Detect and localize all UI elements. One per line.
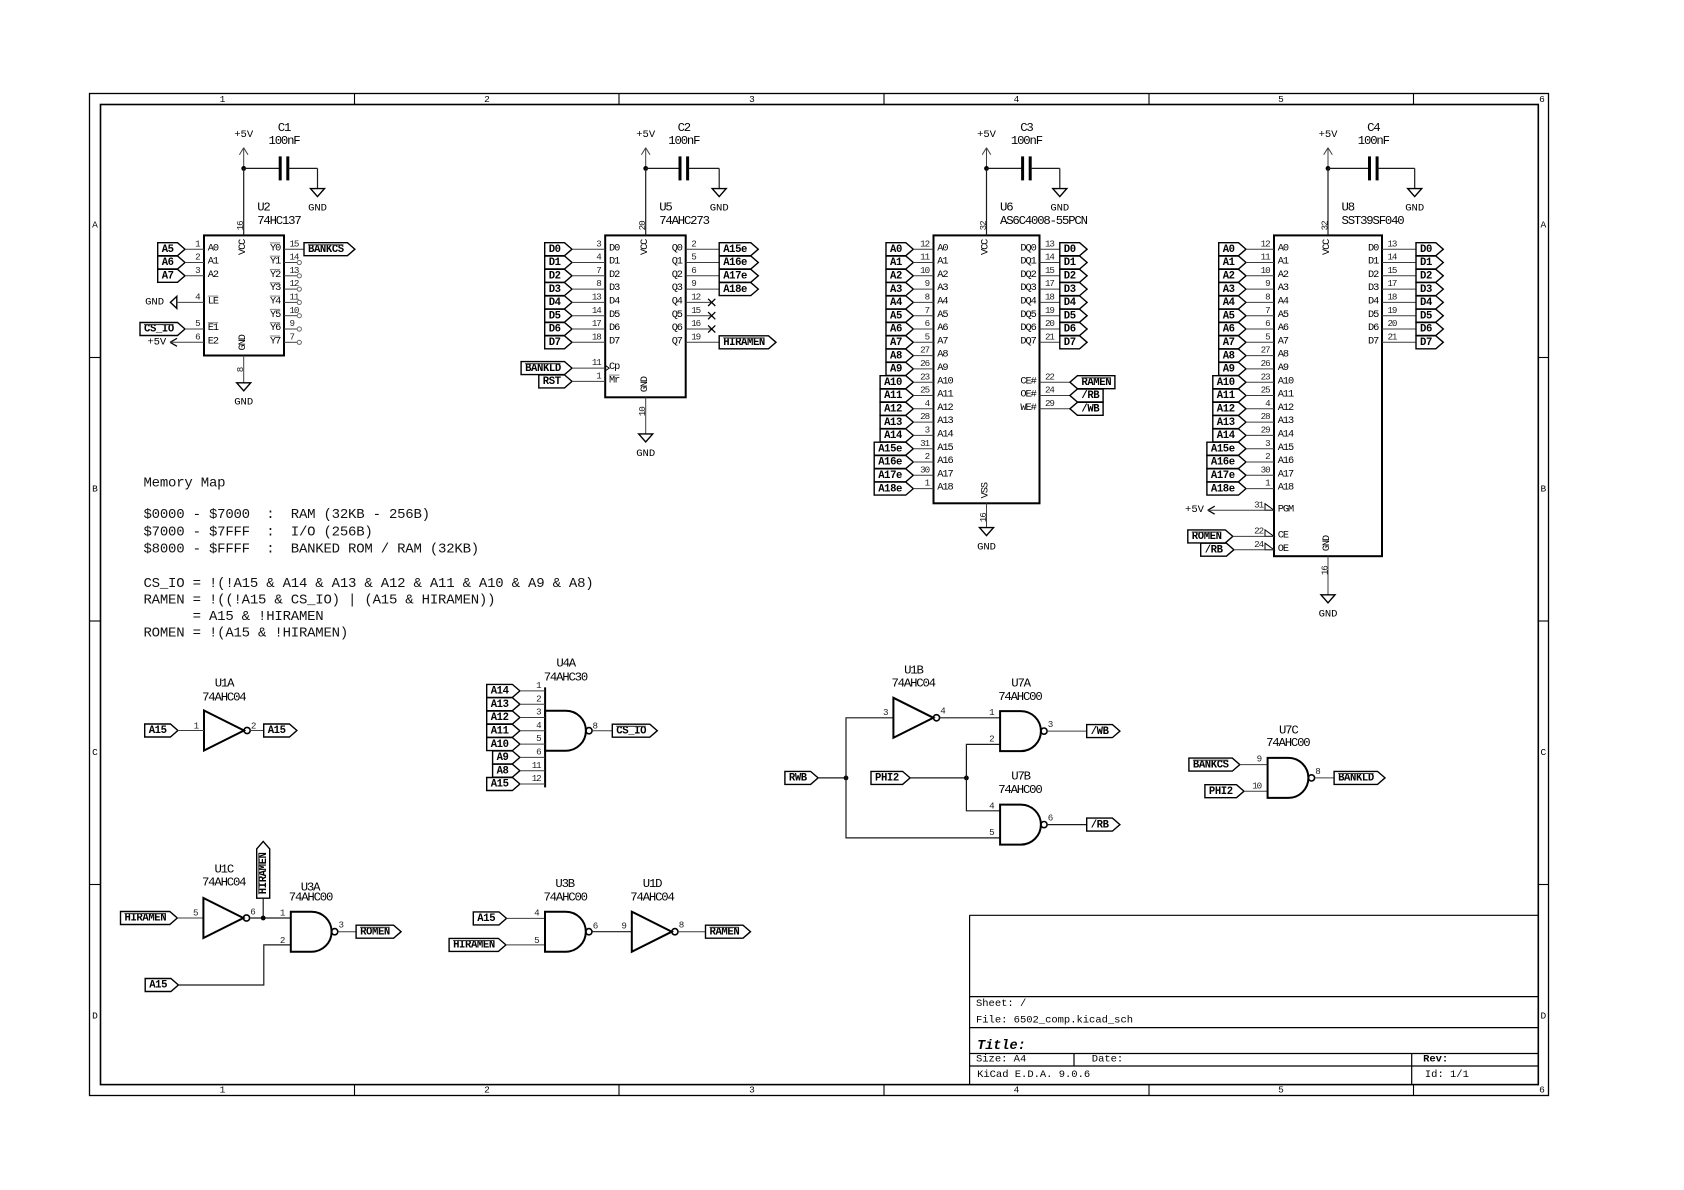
svg-text:A14: A14 <box>1278 429 1294 441</box>
svg-text:18: 18 <box>1045 292 1054 303</box>
global label A17e (U8) <box>1207 469 1246 482</box>
wire A4 to U8 <box>1246 301 1274 303</box>
svg-text:A6: A6 <box>1223 324 1235 336</box>
svg-text:CS_IO: CS_IO <box>616 725 646 737</box>
svg-text:28: 28 <box>1261 411 1270 422</box>
svg-text:DQ7: DQ7 <box>1020 335 1036 347</box>
svg-text:D4: D4 <box>1368 296 1379 308</box>
svg-text:A15: A15 <box>268 725 286 737</box>
svg-text:30: 30 <box>1261 464 1270 475</box>
svg-text:100nF: 100nF <box>269 134 301 148</box>
wire D6 to U5 <box>572 328 605 330</box>
global label D7 (U8) <box>1416 336 1443 349</box>
global label A13 (U8) <box>1213 416 1246 429</box>
global label D4 (U5) <box>545 296 572 309</box>
svg-text:Q1: Q1 <box>672 256 683 268</box>
svg-text:3: 3 <box>536 707 541 718</box>
svg-text:HIRAMEN: HIRAMEN <box>125 913 167 925</box>
svg-text:A2: A2 <box>937 269 948 281</box>
svg-text:D0: D0 <box>1064 244 1076 256</box>
svg-text:19: 19 <box>691 331 700 342</box>
wire C2 right <box>688 167 720 169</box>
wire U6 OE# to /RB <box>1040 395 1070 397</box>
svg-text:A15e: A15e <box>878 443 902 455</box>
svg-text:Y3: Y3 <box>270 282 281 294</box>
svg-text:5: 5 <box>691 252 696 263</box>
svg-text:A17e: A17e <box>878 470 902 482</box>
svg-text:6: 6 <box>691 265 696 276</box>
svg-text:HIRAMEN: HIRAMEN <box>453 940 495 952</box>
svg-text:A1: A1 <box>1278 256 1289 268</box>
svg-text:A2: A2 <box>208 269 219 281</box>
global label A15e (U8) <box>1207 442 1246 455</box>
svg-text:D5: D5 <box>1368 309 1379 321</box>
svg-text:U7B: U7B <box>1011 770 1030 784</box>
svg-text:D6: D6 <box>1064 324 1076 336</box>
global label A0 (U8) <box>1219 243 1246 256</box>
svg-text:CS_IO = !(!A15 & A14 & A13 & A: CS_IO = !(!A15 & A14 & A13 & A12 & A11 &… <box>144 576 594 592</box>
wire C2 left <box>646 167 680 169</box>
svg-text:= A15 & !HIRAMEN: = A15 & !HIRAMEN <box>144 609 324 625</box>
wire A5 to U6 <box>913 315 933 317</box>
wire U3A out to ROMEN <box>338 931 356 933</box>
svg-text:U8: U8 <box>1342 201 1355 215</box>
svg-text:C3: C3 <box>1020 121 1033 135</box>
svg-text:A12: A12 <box>937 402 953 414</box>
svg-text:Sheet: /: Sheet: / <box>976 998 1026 1010</box>
U8 pin 16 (GND) stub <box>1327 556 1329 595</box>
wire U6 DQ6 to D6 <box>1040 328 1060 330</box>
svg-text:16: 16 <box>978 513 989 522</box>
svg-text:100nF: 100nF <box>668 134 700 148</box>
svg-text:D6: D6 <box>1420 324 1432 336</box>
svg-text:A0: A0 <box>1278 242 1289 254</box>
global label A15 (U1A out) <box>264 724 297 737</box>
ground symbol at C1 <box>311 189 325 197</box>
svg-text:A16e: A16e <box>878 457 902 469</box>
svg-text:17: 17 <box>592 318 601 329</box>
svg-text:18: 18 <box>592 331 601 342</box>
svg-text:8: 8 <box>1265 292 1270 303</box>
power symbol +5V at U2 E2 <box>170 338 177 342</box>
U6 pin 32 (VCC) wire from +5V <box>986 168 988 235</box>
junction HIRAMEN node <box>261 916 266 921</box>
U2 pin 16 (VCC) wire from +5V <box>243 168 245 235</box>
wire A6 to U8 <box>1246 328 1274 330</box>
global label HIRAMEN (U1C in) <box>121 912 178 925</box>
global label D5 (U5) <box>545 309 572 322</box>
wire A11 to U8 <box>1246 395 1274 397</box>
svg-text:A10: A10 <box>937 375 953 387</box>
frame column ticks bottom <box>354 1085 356 1096</box>
wire U1D out to RAMEN <box>678 931 706 933</box>
svg-text:25: 25 <box>920 385 929 396</box>
NAND U3B 74AHC00 <box>545 912 586 952</box>
power symbol +5V at C3 <box>986 148 988 169</box>
svg-text:16: 16 <box>235 221 246 230</box>
svg-text:5: 5 <box>1278 94 1284 105</box>
global label A1 (U8) <box>1219 256 1246 269</box>
svg-text:13: 13 <box>1388 238 1397 249</box>
global label A5 (U6) <box>886 309 913 322</box>
svg-text:CE: CE <box>1278 530 1289 542</box>
power symbol +5V at U8 PGM <box>1208 506 1215 510</box>
global label A12 (U8) <box>1213 402 1246 415</box>
power symbol +5V at C4 <box>1327 148 1329 169</box>
svg-text:KiCad E.D.A. 9.0.6: KiCad E.D.A. 9.0.6 <box>977 1069 1090 1081</box>
svg-text:$8000 - $FFFF : BANKED ROM /: $8000 - $FFFF : BANKED ROM / RAM (32KB) <box>144 542 479 558</box>
svg-text:GND: GND <box>710 203 729 215</box>
svg-text:5: 5 <box>925 331 930 342</box>
wire D3 to U5 <box>572 288 605 290</box>
junction at C2 +5V node <box>643 166 648 171</box>
wire C1 right <box>288 167 318 169</box>
svg-text:DQ1: DQ1 <box>1020 256 1036 268</box>
global label BANKLD (U7C out) <box>1334 771 1385 784</box>
global label D3 (U5) <box>545 283 572 296</box>
svg-text:100nF: 100nF <box>1011 134 1043 148</box>
svg-text:VCC: VCC <box>980 239 992 255</box>
svg-text:D1: D1 <box>1368 256 1379 268</box>
wire A2 to U8 <box>1246 275 1274 277</box>
wire A12 to U4A pin 3 <box>520 717 545 719</box>
global label BANKCS <box>304 243 355 256</box>
svg-text:D5: D5 <box>609 309 620 321</box>
svg-text:D5: D5 <box>549 310 561 322</box>
global label BANKLD (U5) <box>521 362 572 375</box>
wire HIRAMEN label down to junction <box>262 898 264 918</box>
wire A14 to U4A pin 1 <box>520 690 545 692</box>
svg-text:A5: A5 <box>937 309 948 321</box>
junction PHI2 node <box>964 776 969 781</box>
wire RWB to junction <box>818 777 846 779</box>
svg-text:$7000 - $7FFF : I/O (256B): $7000 - $7FFF : I/O (256B) <box>144 524 373 540</box>
svg-text:U1B: U1B <box>904 663 923 677</box>
wire PHI2 junction up to U7A pin 2 <box>966 744 1000 778</box>
svg-text:74AHC04: 74AHC04 <box>891 677 935 691</box>
svg-text:5: 5 <box>195 318 200 329</box>
wire PHI2 junction down to U7B pin 4 <box>966 778 1000 811</box>
svg-text:2: 2 <box>280 935 285 946</box>
wire +5V to U2 pin 6 <box>170 341 204 343</box>
frame column ticks top <box>354 94 356 105</box>
svg-text:5: 5 <box>536 733 541 744</box>
global label D1 (U8) <box>1416 256 1443 269</box>
svg-text:8: 8 <box>1315 766 1320 777</box>
svg-text:A0: A0 <box>890 244 902 256</box>
global label A3 (U6) <box>886 283 913 296</box>
svg-text:D2: D2 <box>609 269 620 281</box>
svg-text:74AHC04: 74AHC04 <box>202 875 246 889</box>
svg-text:15: 15 <box>1388 265 1397 276</box>
svg-text:A17: A17 <box>1278 468 1294 480</box>
NAND U3A 74AHC00 <box>291 912 332 952</box>
ground symbol at C4 <box>1408 189 1422 197</box>
svg-text:3: 3 <box>1265 438 1270 449</box>
wire GND to U2 pin 4 <box>177 301 204 303</box>
svg-text:U1A: U1A <box>215 676 235 690</box>
svg-text:6: 6 <box>1265 318 1270 329</box>
svg-text:8: 8 <box>596 278 601 289</box>
svg-text:D5: D5 <box>1420 310 1432 322</box>
svg-text:A5: A5 <box>890 310 902 322</box>
wire A6 to U2 pin 2 <box>185 262 204 264</box>
NAND U7C 74AHC00 <box>1268 758 1309 798</box>
global label A14 (U8) <box>1213 429 1246 442</box>
wire U5 Q3 to A18e <box>686 288 720 290</box>
global label A15 (U4A) <box>487 778 520 791</box>
svg-text:D: D <box>92 1011 98 1022</box>
global label A0 (U6) <box>886 243 913 256</box>
global label A11 (U4A) <box>487 724 520 737</box>
svg-text:$0000 - $7000 : RAM (32KB -: $0000 - $7000 : RAM (32KB - 256B) <box>144 507 430 523</box>
svg-text:+5V: +5V <box>1185 504 1205 516</box>
global label D2 (U6) <box>1060 269 1087 282</box>
wire U6 CE# to RAMEN <box>1040 381 1070 383</box>
wire A1 to U6 <box>913 262 933 264</box>
capacitor C1 <box>279 156 282 180</box>
svg-text:22: 22 <box>1045 371 1054 382</box>
wire U8 D4 to D4 <box>1382 301 1416 303</box>
svg-text:D3: D3 <box>1368 282 1379 294</box>
svg-text:OE: OE <box>1278 543 1289 555</box>
svg-text:5: 5 <box>534 935 539 946</box>
svg-text:D4: D4 <box>1420 297 1433 309</box>
svg-text:2: 2 <box>925 451 930 462</box>
svg-text:DQ5: DQ5 <box>1020 309 1036 321</box>
svg-text:HIRAMEN: HIRAMEN <box>723 337 765 349</box>
svg-text:Title:: Title: <box>977 1039 1026 1054</box>
svg-text:A16: A16 <box>937 455 953 467</box>
wire BANKLD to U5 Cp <box>572 367 605 369</box>
svg-text:GND: GND <box>639 376 651 392</box>
wire U7A out to /WB <box>1047 730 1087 732</box>
wire C1 left <box>244 167 281 169</box>
svg-text:3: 3 <box>195 265 200 276</box>
U6 pin 16 (VSS) stub <box>986 503 988 527</box>
ground symbol at U2 GND <box>237 383 251 391</box>
svg-text:1: 1 <box>220 94 226 105</box>
svg-text:A5: A5 <box>162 244 174 256</box>
svg-text:Y7: Y7 <box>270 335 281 347</box>
svg-text:74AHC30: 74AHC30 <box>544 670 588 684</box>
svg-text:A6: A6 <box>937 322 948 334</box>
svg-text:29: 29 <box>1261 425 1270 436</box>
frame row ticks left <box>90 357 101 359</box>
wire A5 to U2 pin 1 <box>185 248 204 250</box>
svg-text:GND: GND <box>977 542 996 554</box>
global label A15e (U6) <box>874 442 913 455</box>
svg-text:VCC: VCC <box>237 239 249 255</box>
svg-text:6: 6 <box>925 318 930 329</box>
wire RWB junction down to U7B pin 5 <box>846 778 1000 838</box>
wire A2 to U6 <box>913 275 933 277</box>
svg-text:D4: D4 <box>549 297 562 309</box>
wire A18e to U8 <box>1246 488 1274 490</box>
svg-text:A5: A5 <box>1223 310 1235 322</box>
svg-text:6: 6 <box>250 906 255 917</box>
global label CS_IO (U4A out) <box>612 724 657 737</box>
svg-text:Mr: Mr <box>609 375 620 387</box>
svg-text:A18e: A18e <box>878 483 902 495</box>
global label A18e (U8) <box>1207 482 1246 495</box>
svg-text:D6: D6 <box>609 322 620 334</box>
global label D0 (U8) <box>1416 243 1443 256</box>
wire A4 to U6 <box>913 301 933 303</box>
wire A12 to U6 <box>913 408 933 410</box>
wire U5 Q1 to A16e <box>686 262 720 264</box>
svg-text:Y4: Y4 <box>270 296 281 308</box>
svg-text:A16: A16 <box>1278 455 1294 467</box>
svg-text:A14: A14 <box>1217 430 1236 442</box>
wire A3 to U6 <box>913 288 933 290</box>
power symbol +5V at C1 <box>243 148 245 169</box>
svg-text:U4A: U4A <box>556 656 576 670</box>
global label ROMEN (U3A out) <box>356 925 401 938</box>
svg-text:A3: A3 <box>937 282 948 294</box>
svg-text:A10: A10 <box>491 739 509 751</box>
ground symbol at U8 GND <box>1321 595 1335 603</box>
power symbol GND at U2 LE <box>170 296 176 308</box>
global label /WB (U6) <box>1070 402 1103 415</box>
wire A0 to U8 <box>1246 248 1274 250</box>
svg-text:A9: A9 <box>937 362 948 374</box>
svg-text:DQ2: DQ2 <box>1020 269 1036 281</box>
svg-text:Q3: Q3 <box>672 282 683 294</box>
svg-text:+5V: +5V <box>636 129 656 141</box>
global label A2 (U6) <box>886 269 913 282</box>
svg-text:A11: A11 <box>1217 390 1235 402</box>
global label A3 (U8) <box>1219 283 1246 296</box>
svg-text:6: 6 <box>536 747 541 758</box>
svg-text:VCC: VCC <box>1321 239 1333 255</box>
wire HIRAMEN to U1C pin 5 <box>177 917 203 919</box>
wire U1A out to A15 <box>250 730 264 732</box>
svg-text:5: 5 <box>1278 1085 1284 1096</box>
svg-text:A17e: A17e <box>1211 470 1235 482</box>
wire A11 to U4A pin 4 <box>520 730 545 732</box>
U5 pin 10 (GND) stub <box>645 397 647 434</box>
global label D0 (U6) <box>1060 243 1087 256</box>
wire A14 to U8 <box>1246 434 1274 436</box>
svg-text:28: 28 <box>920 411 929 422</box>
global label A16e (U5) <box>719 256 758 269</box>
global label HIRAMEN (U5) <box>719 336 776 349</box>
global label /RB (U7B out) <box>1087 818 1120 831</box>
svg-text:D0: D0 <box>609 242 620 254</box>
U5 pin 20 (VCC) wire from +5V <box>645 168 647 235</box>
NAND U7A 74AHC00 <box>1000 711 1041 751</box>
svg-text:A13: A13 <box>937 415 953 427</box>
svg-text:PHI2: PHI2 <box>1209 786 1233 798</box>
svg-text:A5: A5 <box>1278 309 1289 321</box>
svg-text:Y2: Y2 <box>270 269 281 281</box>
svg-text:A0: A0 <box>208 242 219 254</box>
svg-text:A13: A13 <box>884 417 902 429</box>
wire A12 to U8 <box>1246 408 1274 410</box>
svg-text:D: D <box>1541 1011 1547 1022</box>
wire U6 DQ2 to D2 <box>1040 275 1060 277</box>
svg-text:7: 7 <box>290 331 295 342</box>
svg-text:17: 17 <box>1045 278 1054 289</box>
svg-text:A7: A7 <box>937 335 948 347</box>
svg-text:2: 2 <box>484 1085 490 1096</box>
svg-text:30: 30 <box>920 464 929 475</box>
svg-text:A13: A13 <box>491 699 509 711</box>
ground symbol at C3 <box>1053 189 1067 197</box>
wire A8 to U6 <box>913 355 933 357</box>
svg-text:74AHC00: 74AHC00 <box>998 783 1042 797</box>
svg-text:A3: A3 <box>890 284 902 296</box>
svg-text:A2: A2 <box>890 271 902 283</box>
power symbol +5V at C2 <box>645 148 647 169</box>
svg-text:9: 9 <box>290 318 295 329</box>
svg-text:/WB: /WB <box>1091 726 1110 738</box>
svg-text:29: 29 <box>1045 398 1054 409</box>
inverter U1B 74AHC04 <box>893 698 933 738</box>
svg-text:A14: A14 <box>491 686 510 698</box>
svg-text:A17: A17 <box>937 468 953 480</box>
svg-text:GND: GND <box>145 296 164 308</box>
svg-text:HIRAMEN: HIRAMEN <box>258 852 270 894</box>
svg-text:D6: D6 <box>1368 322 1379 334</box>
IC U2 74HC137 body <box>204 235 284 355</box>
svg-text:File: 6502_comp.kicad_sch: File: 6502_comp.kicad_sch <box>976 1014 1133 1026</box>
svg-text:19: 19 <box>1388 305 1397 316</box>
global label A11 (U6) <box>880 389 913 402</box>
svg-text:A11: A11 <box>491 726 509 738</box>
svg-text:D3: D3 <box>609 282 620 294</box>
wire U2 Y0 to BANKCS <box>284 248 304 250</box>
wire U8 D0 to D0 <box>1382 248 1416 250</box>
svg-text:A6: A6 <box>1278 322 1289 334</box>
global label D3 (U6) <box>1060 283 1087 296</box>
wire U1C out to U3A pin 1 <box>250 917 291 919</box>
global label D6 (U8) <box>1416 323 1443 336</box>
svg-text:GND: GND <box>234 397 253 409</box>
wire A15 up to U3A pin 2 <box>178 945 290 985</box>
svg-text:16: 16 <box>1320 566 1331 575</box>
svg-text:A3: A3 <box>1278 282 1289 294</box>
global label A9 (U6) <box>886 362 913 375</box>
svg-text:B: B <box>1541 484 1547 495</box>
svg-text:A6: A6 <box>162 257 174 269</box>
inverter U1D 74AHC04 <box>632 912 672 952</box>
svg-text:A15: A15 <box>1278 442 1294 454</box>
svg-text:12: 12 <box>1261 238 1270 249</box>
wire U6 DQ0 to D0 <box>1040 248 1060 250</box>
svg-text:U2: U2 <box>257 201 270 215</box>
global label D7 (U5) <box>545 336 572 349</box>
global label RST <box>539 375 572 388</box>
svg-text:D7: D7 <box>1420 337 1432 349</box>
global label A2 (U8) <box>1219 269 1246 282</box>
wire U6 DQ4 to D4 <box>1040 301 1060 303</box>
svg-text:D7: D7 <box>609 335 620 347</box>
svg-text:A16e: A16e <box>1211 457 1235 469</box>
svg-text:D2: D2 <box>1368 269 1379 281</box>
wire U5 Q7 to HIRAMEN <box>686 341 720 343</box>
svg-text:8: 8 <box>235 367 246 372</box>
svg-text:CS_IO: CS_IO <box>144 324 174 336</box>
svg-text:D7: D7 <box>1064 337 1076 349</box>
global label A6 <box>158 256 185 269</box>
capacitor C4 <box>1368 156 1371 180</box>
svg-text:74AHC04: 74AHC04 <box>630 890 674 904</box>
ground symbol at C2 <box>712 189 726 197</box>
global label A9 (U8) <box>1219 362 1246 375</box>
global label A1 (U6) <box>886 256 913 269</box>
